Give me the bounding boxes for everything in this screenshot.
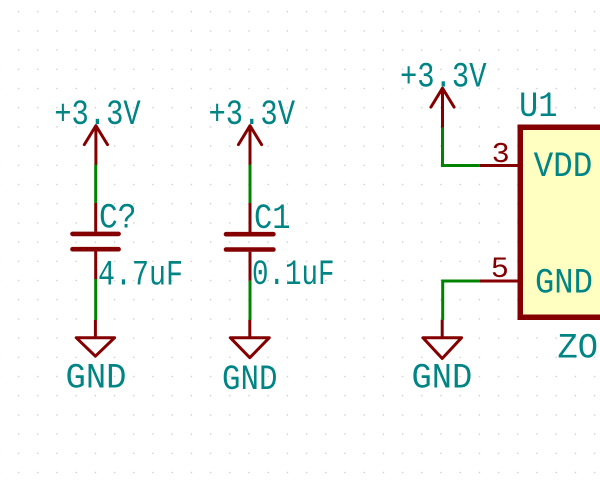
svg-text:ZO: ZO xyxy=(558,329,599,369)
ground GND1 triangle xyxy=(76,338,114,357)
ground GND2 lead xyxy=(248,320,251,338)
svg-text:4.7uF: 4.7uF xyxy=(98,256,183,296)
svg-text:U1: U1 xyxy=(519,88,558,128)
svg-text:VDD: VDD xyxy=(534,148,593,188)
power +3.3V PWR2 arrow symbol xyxy=(238,126,261,165)
ground GND1 lead xyxy=(94,320,97,338)
capacitor C1 plates xyxy=(226,234,273,249)
capacitor C? plates xyxy=(73,234,119,249)
ground GND3 lead xyxy=(441,320,444,338)
svg-text:GND: GND xyxy=(535,264,593,304)
IC U1 pin 5 stub xyxy=(480,280,519,283)
ground GND2 triangle xyxy=(230,338,269,358)
svg-text:GND: GND xyxy=(66,359,127,399)
svg-text:0.1uF: 0.1uF xyxy=(252,256,335,296)
power +3.3V PWR1 arrow symbol xyxy=(84,126,107,165)
capacitor C? pin 1 xyxy=(94,203,97,232)
wire C? top xyxy=(94,165,97,203)
wire C? bottom xyxy=(94,279,97,320)
wire VDD net vertical xyxy=(441,128,444,166)
ground GND3 triangle xyxy=(423,338,462,359)
power +3.3V PWR3 arrow symbol xyxy=(431,88,454,127)
svg-text:GND: GND xyxy=(412,359,473,399)
wire C1 top xyxy=(249,165,252,203)
svg-text:5: 5 xyxy=(491,253,509,286)
IC U1 body xyxy=(520,127,600,317)
capacitor C1 pin 1 xyxy=(249,203,252,232)
IC U1 pin 3 stub xyxy=(480,164,518,167)
capacitor C1 pin 2 xyxy=(249,252,252,281)
svg-text:3: 3 xyxy=(492,139,510,171)
wire C1 bottom xyxy=(249,281,252,320)
wire GND net horizontal xyxy=(443,281,480,320)
capacitor C? pin 2 xyxy=(94,251,97,279)
svg-text:GND: GND xyxy=(222,361,278,401)
wire VDD net horizontal xyxy=(443,164,480,166)
